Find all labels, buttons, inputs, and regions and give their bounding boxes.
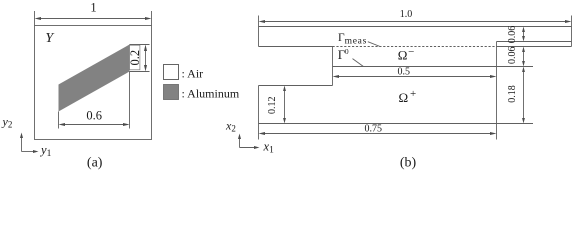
svg-text:: Air: : Air <box>182 66 204 80</box>
svg-text:x1: x1 <box>263 140 275 156</box>
svg-text:(a): (a) <box>87 156 103 171</box>
svg-text:0.75: 0.75 <box>365 124 383 135</box>
svg-text:Ω+: Ω+ <box>399 88 417 105</box>
svg-text:0.12: 0.12 <box>267 97 278 115</box>
svg-text:0.6: 0.6 <box>86 109 102 123</box>
svg-text:1: 1 <box>90 1 96 15</box>
svg-text:: Aluminum: : Aluminum <box>182 86 240 100</box>
svg-text:x2: x2 <box>225 119 236 134</box>
svg-text:(b): (b) <box>400 156 417 171</box>
svg-text:0.5: 0.5 <box>398 67 411 78</box>
svg-text:0.06: 0.06 <box>507 47 518 65</box>
svg-text:Y: Y <box>45 31 55 46</box>
svg-text:0.18: 0.18 <box>507 85 518 103</box>
svg-text:y1: y1 <box>39 143 52 159</box>
svg-text:Ω−: Ω− <box>398 46 415 63</box>
svg-text:Γ0: Γ0 <box>338 47 349 62</box>
svg-text:0.2: 0.2 <box>128 50 142 66</box>
svg-text:y2: y2 <box>2 115 13 130</box>
svg-text:Γmeas: Γmeas <box>338 32 367 46</box>
svg-text:0.06: 0.06 <box>507 26 518 44</box>
svg-text:1.0: 1.0 <box>400 9 413 20</box>
